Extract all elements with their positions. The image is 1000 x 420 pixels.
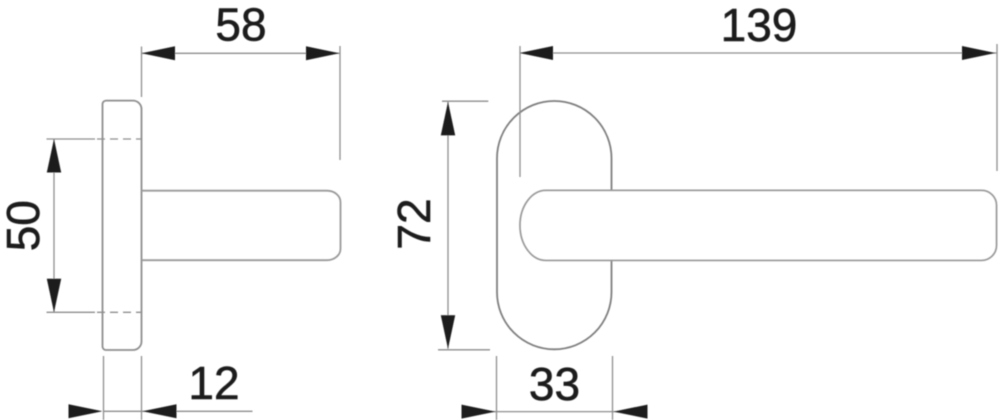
dimension 72 extension bottom — [438, 349, 490, 351]
dimension 58 extension right — [339, 46, 341, 160]
dimension 12 left arrow — [69, 404, 103, 418]
lever side view (left) — [142, 191, 341, 261]
dimension 12 line — [104, 410, 253, 412]
dimension 50 extension top solid — [47, 138, 96, 140]
dimension 72 extension top — [442, 100, 488, 102]
oval rosette front view (right) — [497, 101, 612, 349]
dimension 58 extension left — [141, 47, 143, 98]
dimension 58 line — [142, 52, 340, 54]
svg-text:12: 12 — [188, 357, 239, 409]
dimension 50 top arrow — [47, 139, 61, 173]
dimension 58 right arrow — [306, 46, 339, 60]
svg-text:72: 72 — [388, 198, 440, 249]
dimension 12 right arrow — [143, 404, 177, 418]
dimension 12 extension right — [141, 356, 143, 420]
dimension 72 top arrow — [441, 102, 455, 135]
dimension 139 line — [520, 52, 998, 54]
svg-text:33: 33 — [529, 358, 580, 410]
dimension 50 extension top dashed — [97, 138, 142, 140]
dimension 139 right arrow — [962, 46, 996, 60]
svg-text:58: 58 — [215, 0, 266, 51]
dimension 139 extension right — [996, 44, 998, 171]
dimension 58 left arrow — [142, 46, 175, 60]
dimension 33 left arrow — [462, 405, 496, 419]
dimension 50 bottom arrow — [47, 279, 61, 313]
rosette side view (left) — [103, 101, 142, 350]
dimension 33 line — [464, 411, 647, 413]
svg-text:50: 50 — [0, 200, 49, 251]
dimension 33 extension left — [496, 356, 498, 420]
dimension 33 right arrow — [614, 405, 648, 419]
lever front view (right) — [520, 190, 997, 260]
dimension 50 extension bottom dashed — [97, 311, 142, 313]
svg-text:139: 139 — [721, 0, 798, 51]
dimension 12 extension left — [103, 356, 105, 420]
dimension 50 extension bottom solid — [47, 311, 96, 313]
dimension 72 line — [447, 102, 449, 349]
dimension 139 left arrow — [520, 46, 554, 60]
dimension 72 bottom arrow — [441, 315, 455, 349]
dimension 50 line — [53, 139, 55, 312]
dimension 33 extension right — [612, 356, 614, 420]
dimension 139 extension left — [519, 46, 521, 177]
